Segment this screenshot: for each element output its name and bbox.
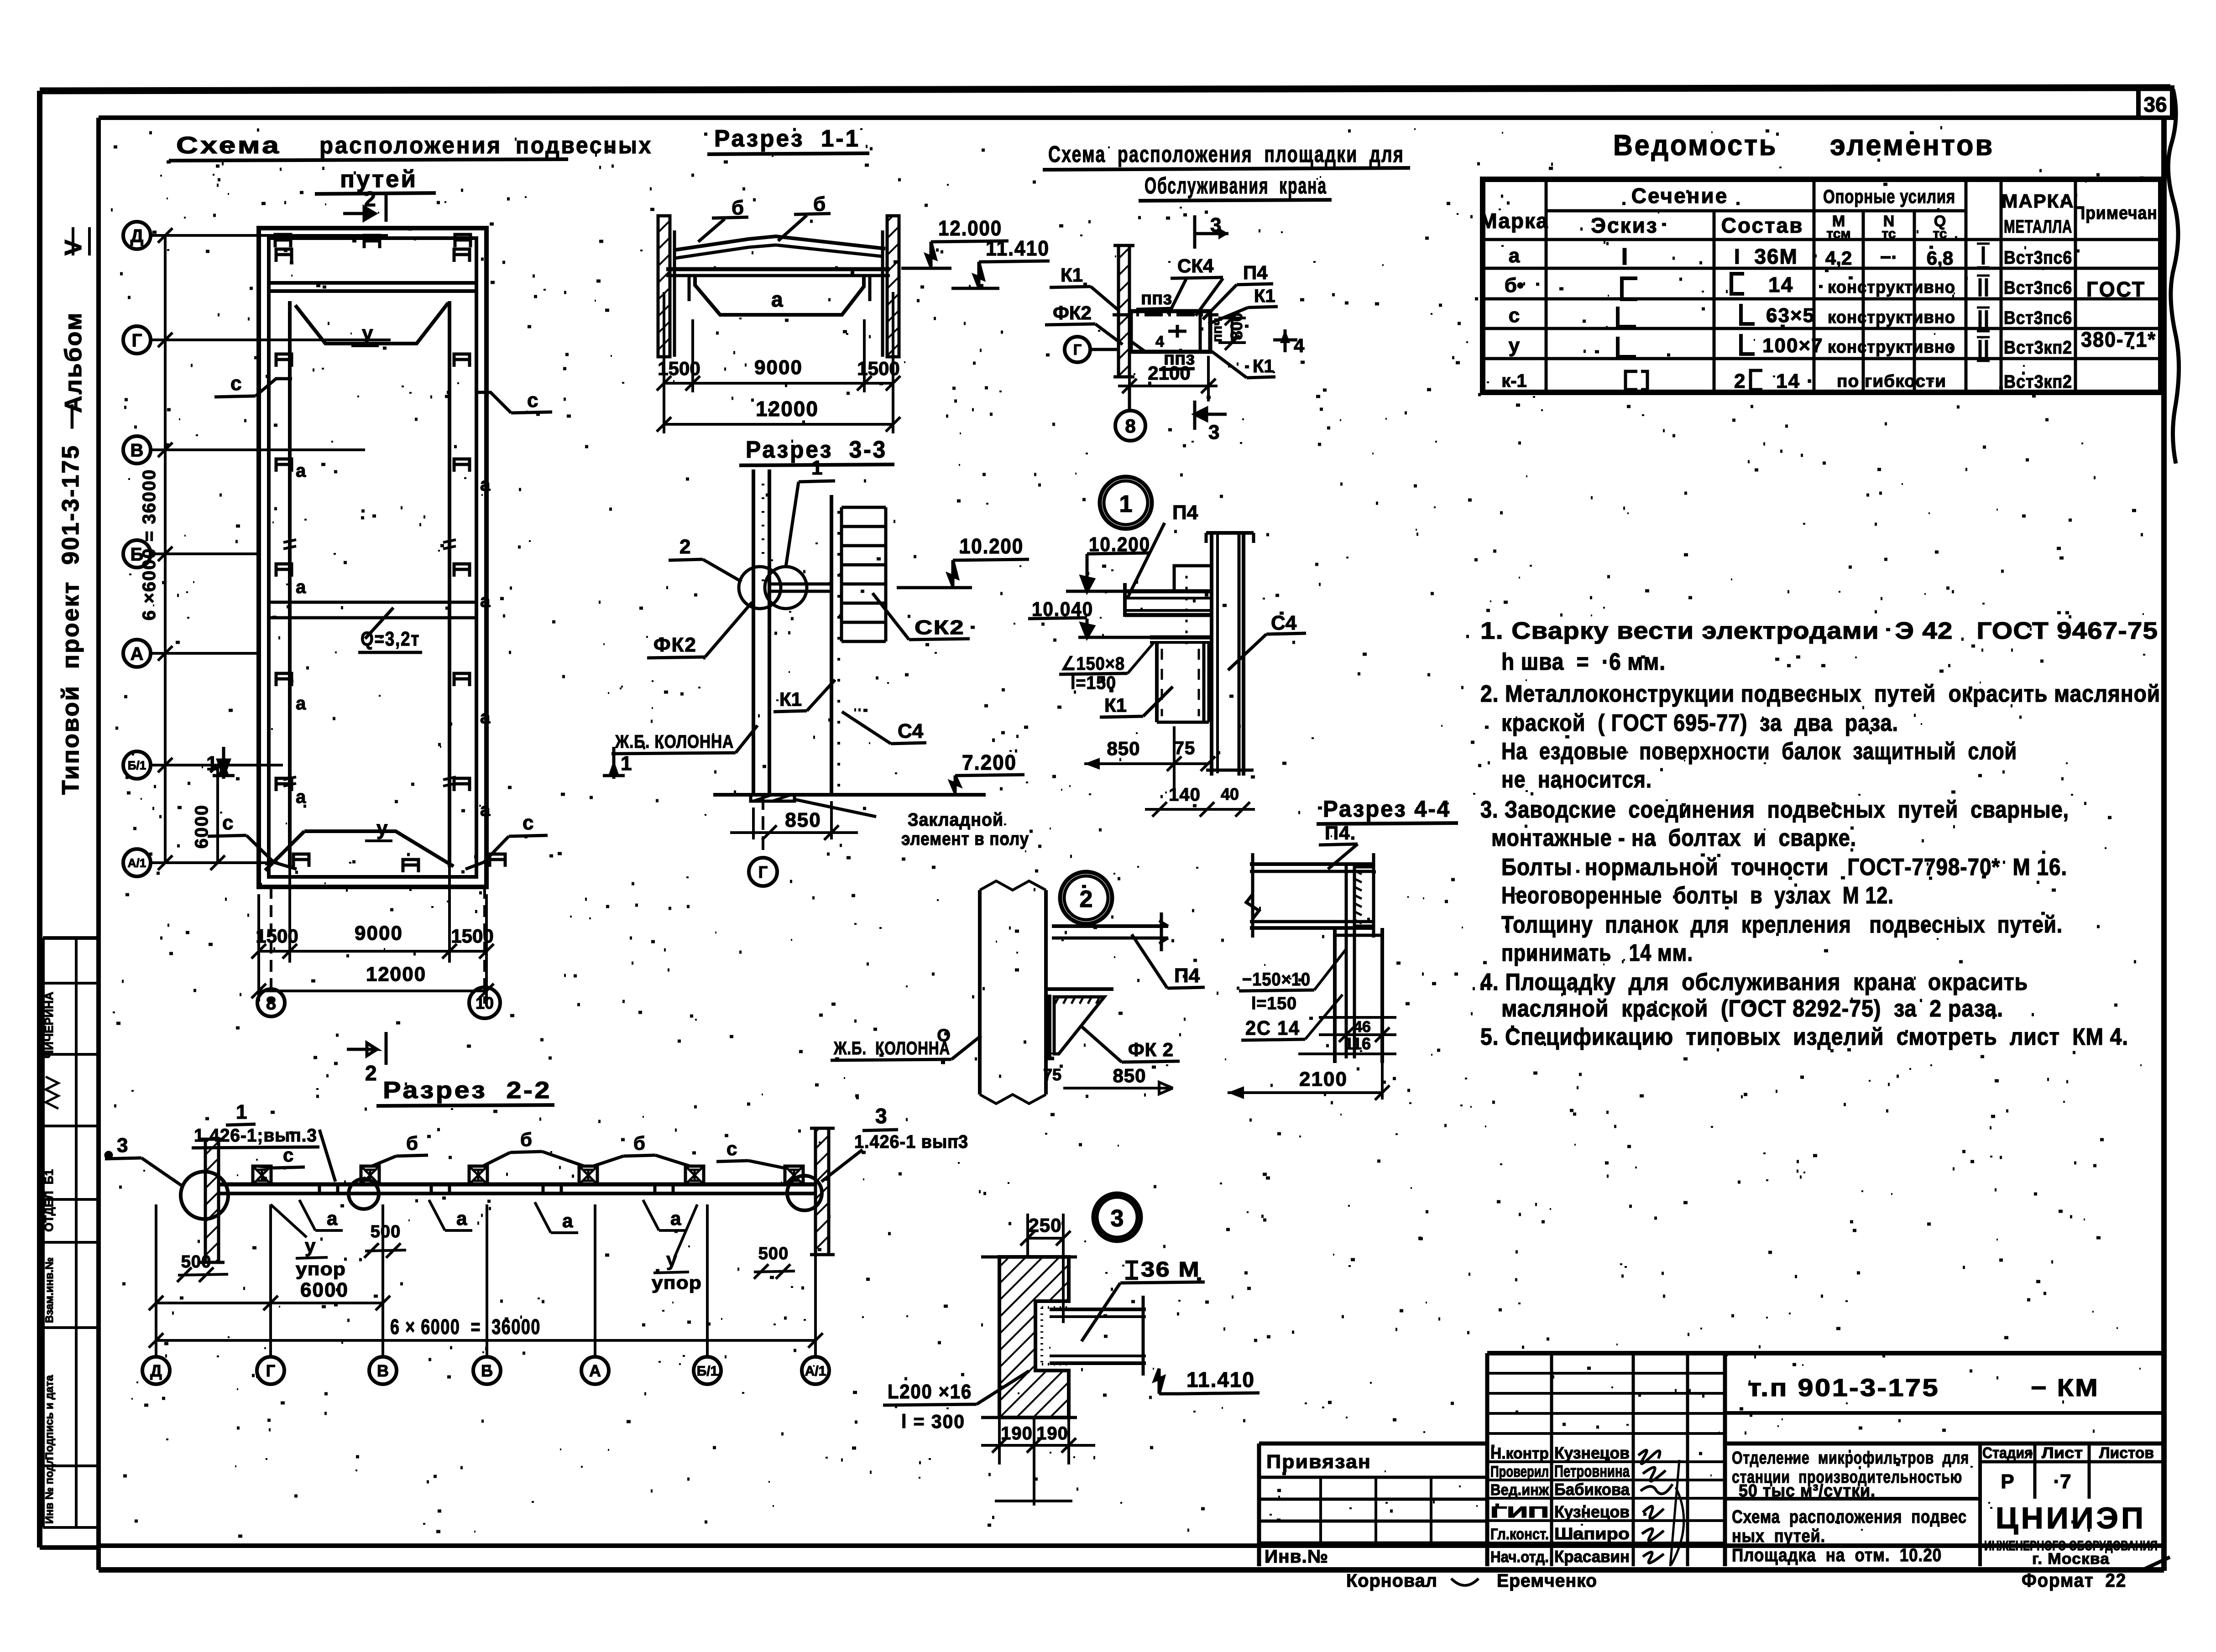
svg-text:I: I xyxy=(1621,244,1628,270)
vertical dimension line 6x6000=36000 xyxy=(164,235,167,863)
svg-text:Обслуживания крана: Обслуживания крана xyxy=(1145,173,1327,198)
svg-text:А: А xyxy=(589,1361,601,1380)
svg-text:К1: К1 xyxy=(1254,286,1275,306)
svg-text:2100: 2100 xyxy=(1148,362,1190,384)
svg-text:а: а xyxy=(296,693,306,714)
svg-text:П4.: П4. xyxy=(1325,822,1356,844)
svg-text:Ведомость: Ведомость xyxy=(1613,129,1777,162)
svg-text:2: 2 xyxy=(679,536,690,558)
svg-text:·7: ·7 xyxy=(2053,1470,2071,1493)
svg-text:500: 500 xyxy=(371,1222,401,1241)
svg-text:а: а xyxy=(480,591,491,611)
svg-text:ГИП: ГИП xyxy=(1490,1504,1549,1521)
svg-text:2. Металлоконструкции подвесны: 2. Металлоконструкции подвесных путей ок… xyxy=(1480,681,2160,707)
svg-text:850: 850 xyxy=(785,809,821,831)
svg-text:а: а xyxy=(296,577,306,597)
svg-text:б: б xyxy=(732,197,744,219)
svg-text:l = 300: l = 300 xyxy=(901,1411,965,1432)
svg-text:не наносится.: не наносится. xyxy=(1501,766,1652,793)
svg-text:С4: С4 xyxy=(898,720,924,742)
svg-text:конструктивно: конструктивно xyxy=(1828,308,1955,327)
detail 3: I-beam 36M xyxy=(1050,1308,1146,1311)
section 2-2: right wall (hatched) xyxy=(815,1128,829,1255)
svg-text:Разрез 2-2: Разрез 2-2 xyxy=(383,1077,552,1104)
svg-text:краской ( ГОСТ 695-77) за д: краской ( ГОСТ 695-77) за два раза. xyxy=(1501,710,1898,736)
svg-text:а: а xyxy=(456,1208,467,1229)
dimension 6000 (Б/1-А/1) xyxy=(216,765,219,863)
svg-text:Площадка на отм. 10.20: Площадка на отм. 10.20 xyxy=(1732,1545,1942,1565)
node 1: П4 beam xyxy=(1125,589,1211,594)
section 2-2: rail clamps on beam xyxy=(253,1166,271,1184)
svg-text:с: с xyxy=(523,812,533,834)
elevation 11.410 near title block left xyxy=(111,128,2143,1536)
svg-text:Типовой проект 901-3-175 —: Типовой проект 901-3-175 — xyxy=(57,403,84,795)
section 1-1: right column (hatched) xyxy=(887,216,899,357)
svg-text:50 тыс м³/сутки.: 50 тыс м³/сутки. xyxy=(1739,1481,1876,1501)
plan: upper trapezoid y xyxy=(295,303,448,344)
svg-text:2: 2 xyxy=(1734,370,1745,392)
svg-text:− КМ: − КМ xyxy=(2031,1374,2099,1402)
svg-text:Опорные усилия: Опорные усилия xyxy=(1823,186,1955,207)
axis circles 8 and 10 (bottom of plan) xyxy=(257,989,285,1016)
title block: object description xyxy=(1725,1497,1980,1501)
svg-text:Инв.№: Инв.№ xyxy=(1265,1547,1328,1567)
svg-text:у: у xyxy=(1509,334,1520,357)
section 4-4: hanger connection xyxy=(1345,864,1348,1058)
svg-text:7.200: 7.200 xyxy=(962,750,1017,774)
section 4-4: dims 46 116 2100 xyxy=(1319,1016,1396,1019)
svg-text:10: 10 xyxy=(476,994,494,1012)
svg-text:Q=3,2т: Q=3,2т xyxy=(361,628,420,650)
section 1-1: runway beam line xyxy=(666,267,890,271)
section 2-2: dim 6000 xyxy=(156,1302,383,1304)
svg-text:3: 3 xyxy=(1208,421,1219,443)
svg-text:ФК2: ФК2 xyxy=(653,634,697,656)
plan: crane line Q=3,2т xyxy=(269,601,476,604)
sidebar bottom stamp table xyxy=(43,936,99,940)
svg-text:2100: 2100 xyxy=(1299,1068,1348,1090)
svg-text:4. Площадку для обслуживания: 4. Площадку для обслуживания крана окрас… xyxy=(1480,969,2028,995)
svg-text:Нач.отд.: Нач.отд. xyxy=(1490,1548,1549,1566)
svg-text:а: а xyxy=(296,461,306,481)
svg-text:с: с xyxy=(726,1138,737,1159)
svg-text:75: 75 xyxy=(1043,1065,1061,1084)
section 3-3: axis Г circle bottom xyxy=(762,796,764,856)
svg-text:800: 800 xyxy=(1227,313,1246,340)
platform scheme: platform plan xyxy=(1131,311,1210,352)
svg-text:10.200: 10.200 xyxy=(960,534,1024,558)
svg-text:б: б xyxy=(633,1132,645,1154)
svg-text:тс: тс xyxy=(1882,226,1896,241)
section 1-1: hanger verticals xyxy=(688,276,691,301)
svg-text:500: 500 xyxy=(758,1244,789,1263)
svg-text:Красавин: Красавин xyxy=(1554,1547,1630,1566)
svg-text:140: 140 xyxy=(1169,785,1201,805)
svg-text:Подпись и дата: Подпись и дата xyxy=(43,1375,56,1460)
svg-text:3: 3 xyxy=(1111,1205,1124,1232)
svg-text:850: 850 xyxy=(1113,1065,1146,1086)
svg-text:б: б xyxy=(520,1129,532,1150)
svg-text:1: 1 xyxy=(811,457,822,479)
title block: left section Привязан xyxy=(1257,1444,1261,1566)
svg-text:П4: П4 xyxy=(1243,262,1268,283)
svg-text:1: 1 xyxy=(1119,491,1133,517)
svg-text:Вст3пс6: Вст3пс6 xyxy=(2004,308,2072,328)
svg-text:190: 190 xyxy=(1036,1423,1068,1444)
right edge wavy overdraw xyxy=(2168,89,2179,464)
svg-text:к-1: к-1 xyxy=(1501,371,1527,391)
plan bottom dimensions xyxy=(270,887,272,1004)
plan: lower trapezoid y xyxy=(304,831,454,866)
svg-text:Бабикова: Бабикова xyxy=(1554,1480,1630,1499)
title block: стадия лист листов xyxy=(2033,1444,2037,1499)
svg-text:40: 40 xyxy=(1221,785,1239,803)
svg-text:а: а xyxy=(480,474,491,495)
svg-text:Состав: Состав xyxy=(1721,214,1804,237)
svg-text:Схема: Схема xyxy=(176,132,281,159)
svg-text:П4: П4 xyxy=(1174,964,1200,987)
svg-text:Корновал: Корновал xyxy=(1346,1571,1437,1591)
node 1: bracket above beam xyxy=(1174,566,1212,591)
svg-text:ппз: ппз xyxy=(1141,288,1172,308)
node 1: bracket at 10.040 xyxy=(1150,636,1211,640)
svg-text:1500: 1500 xyxy=(451,925,493,947)
svg-text:МЕТАЛЛА: МЕТАЛЛА xyxy=(2004,217,2072,237)
svg-text:1500: 1500 xyxy=(256,925,298,947)
svg-text:Г: Г xyxy=(266,1361,275,1380)
plan: beam break marks xyxy=(283,540,296,542)
node 2 detail circle xyxy=(1060,872,1112,924)
section 3-3: закладной элемент label xyxy=(794,799,876,817)
svg-text:В: В xyxy=(131,440,144,460)
svg-text:б: б xyxy=(406,1132,418,1154)
svg-text:расположения: расположения xyxy=(319,132,502,159)
section 3-3: stair СК2 xyxy=(840,507,843,641)
svg-text:46: 46 xyxy=(1354,1018,1371,1036)
section mark 2 (bottom) xyxy=(385,1032,388,1065)
svg-text:Р: Р xyxy=(2001,1470,2014,1493)
svg-text:116: 116 xyxy=(1344,1034,1371,1053)
svg-text:∠150×8: ∠150×8 xyxy=(1061,654,1125,674)
svg-text:4: 4 xyxy=(1294,335,1305,356)
svg-text:11.410: 11.410 xyxy=(986,236,1050,260)
svg-text:К1: К1 xyxy=(1253,356,1274,376)
svg-text:Эскиз: Эскиз xyxy=(1591,214,1658,237)
node 1 detail circle xyxy=(1100,477,1152,529)
svg-text:а: а xyxy=(327,1208,338,1229)
svg-text:14: 14 xyxy=(1768,273,1793,297)
grid lines from axis circles xyxy=(151,234,388,237)
svg-text:с: с xyxy=(1509,304,1520,327)
svg-text:а: а xyxy=(1509,245,1520,267)
svg-text:К1: К1 xyxy=(1061,264,1083,286)
svg-text:Г: Г xyxy=(758,863,768,881)
section 3-3: С4 channel vertical xyxy=(830,495,833,795)
section 4-4: beam xyxy=(1250,862,1374,866)
svg-text:Неоговоренные болты в узлах: Неоговоренные болты в узлах М 12. xyxy=(1501,882,1894,909)
svg-text:конструктивно: конструктивно xyxy=(1828,338,1955,357)
svg-text:А: А xyxy=(131,644,144,664)
svg-text:Н.контр: Н.контр xyxy=(1490,1445,1549,1462)
section 4-4: column below xyxy=(1333,928,1337,1063)
section 2-2: dim 36000 xyxy=(156,1339,815,1342)
svg-text:1.426-1 вып3: 1.426-1 вып3 xyxy=(854,1132,968,1152)
section 2-2: grid verticals xyxy=(155,1204,157,1357)
svg-text:с: с xyxy=(230,372,241,395)
svg-text:конструктивно: конструктивно xyxy=(1828,278,1955,297)
svg-text:Ж.Б. КОЛОННА: Ж.Б. КОЛОННА xyxy=(833,1038,950,1058)
svg-text:А/1: А/1 xyxy=(128,856,146,870)
svg-text:у: у xyxy=(376,817,388,839)
svg-text:а: а xyxy=(562,1210,573,1231)
svg-text:а: а xyxy=(670,1208,681,1229)
platform scheme: axis Г circle xyxy=(1065,337,1090,362)
svg-text:Инв № подл: Инв № подл xyxy=(43,1457,56,1524)
svg-text:14 ·: 14 · xyxy=(1776,370,1814,392)
svg-text:Формат 22: Формат 22 xyxy=(2022,1569,2127,1591)
svg-text:Стадия: Стадия xyxy=(1982,1444,2033,1462)
svg-text:3: 3 xyxy=(875,1104,887,1128)
svg-text:В: В xyxy=(377,1361,389,1380)
svg-text:1: 1 xyxy=(206,752,217,775)
svg-text:−·: −· xyxy=(1880,246,1898,268)
svg-text:элемент в полу: элемент в полу xyxy=(901,829,1029,849)
svg-text:К1: К1 xyxy=(779,688,802,710)
svg-text:Вст3пс6: Вст3пс6 xyxy=(2004,248,2072,268)
svg-text:Вст3кп2: Вст3кп2 xyxy=(2004,338,2072,358)
svg-text:Разрез 1-1: Разрез 1-1 xyxy=(714,125,860,152)
svg-text:1: 1 xyxy=(621,752,632,775)
svg-text:Кузнецов: Кузнецов xyxy=(1554,1444,1630,1462)
section 3-3: column verticals xyxy=(752,469,755,796)
platform scheme: wall (hatched) xyxy=(1118,245,1129,377)
svg-text:1.426-1;вып.3: 1.426-1;вып.3 xyxy=(194,1126,317,1146)
svg-text:Еремченко: Еремченко xyxy=(1497,1571,1597,1591)
svg-text:36 М: 36 М xyxy=(1141,1257,1200,1281)
section 3-3: connection beam + detail circles xyxy=(769,583,831,586)
svg-text:а: а xyxy=(480,707,491,727)
svg-text:у: у xyxy=(305,1235,316,1256)
svg-text:Взам.инв.№: Взам.инв.№ xyxy=(43,1257,56,1323)
node 2: ФК2 bracket xyxy=(1046,987,1113,991)
platform scheme: axis 8 circle xyxy=(1115,411,1145,441)
plan view: suspended tracks layout xyxy=(259,228,486,887)
title block: document number box xyxy=(1725,1411,2164,1415)
svg-text:Разрез 4-4: Разрез 4-4 xyxy=(1323,796,1451,822)
svg-text:12000: 12000 xyxy=(366,963,426,985)
svg-text:монтажные - на болтах и сва: монтажные - на болтах и сварке. xyxy=(1491,825,1856,851)
svg-text:масляной краской (ГОСТ 8292-: масляной краской (ГОСТ 8292-75) за 2 раз… xyxy=(1501,995,2003,1022)
svg-text:Листов: Листов xyxy=(2099,1444,2154,1462)
svg-text:ОТДЕЛ Б1: ОТДЕЛ Б1 xyxy=(42,1169,56,1232)
svg-text:5. Спецификацию типовых изде: 5. Спецификацию типовых изделий смотреть… xyxy=(1480,1024,2128,1050)
svg-text:8: 8 xyxy=(266,993,276,1013)
svg-text:с: с xyxy=(283,1144,293,1166)
svg-text:Ж.Б. КОЛОННА: Ж.Б. КОЛОННА xyxy=(615,732,734,752)
svg-text:а: а xyxy=(771,287,783,311)
section 2-2: axis circles bottom xyxy=(142,1357,170,1384)
svg-text:Схема расположения площадки: Схема расположения площадки для xyxy=(1048,141,1404,167)
platform scheme: dim 800 xyxy=(1231,318,1233,343)
svg-text:ных путей.: ных путей. xyxy=(1732,1526,1825,1546)
svg-text:Г: Г xyxy=(132,330,142,350)
platform scheme: section mark 4 xyxy=(1273,339,1297,342)
svg-text:Г: Г xyxy=(1073,342,1082,358)
svg-text:Проверил: Проверил xyxy=(1490,1463,1549,1480)
svg-text:6,8: 6,8 xyxy=(1927,247,1953,269)
svg-text:4: 4 xyxy=(1155,333,1164,350)
svg-text:Б/1: Б/1 xyxy=(697,1364,718,1379)
section mark 1 (left) xyxy=(222,747,225,779)
svg-text:Д: Д xyxy=(150,1361,162,1380)
svg-text:6000: 6000 xyxy=(300,1279,349,1301)
svg-text:1. Сварку вести электродами Э: 1. Сварку вести электродами Э 42 ГОСТ 94… xyxy=(1480,618,2158,644)
svg-text:3: 3 xyxy=(117,1134,128,1157)
svg-text:ФК2: ФК2 xyxy=(1053,302,1092,323)
node 2: column xyxy=(978,890,982,1094)
svg-text:500: 500 xyxy=(181,1252,211,1272)
svg-text:I 36М: I 36М xyxy=(1734,245,1798,268)
svg-text:А/1: А/1 xyxy=(805,1364,826,1379)
svg-text:3. Заводские соединения подв: 3. Заводские соединения подвесных путей … xyxy=(1480,797,2069,823)
svg-text:тс: тс xyxy=(1933,226,1947,241)
section mark 1 (right) xyxy=(612,747,616,779)
title block: name rows xyxy=(1487,1460,1725,1463)
svg-text:9000: 9000 xyxy=(754,356,803,379)
section 3-3: floor line xyxy=(713,793,986,797)
svg-text:упор: упор xyxy=(652,1273,702,1293)
node 2: П4 beam xyxy=(1052,924,1168,928)
svg-text:принимать 14 мм.: принимать 14 мм. xyxy=(1501,940,1693,966)
svg-text:С4: С4 xyxy=(1271,612,1297,634)
section 2-2: left wall (hatched) xyxy=(205,1139,219,1262)
svg-text:путей: путей xyxy=(340,166,418,193)
svg-text:Лист: Лист xyxy=(2042,1444,2083,1462)
svg-text:4,2: 4,2 xyxy=(1825,247,1852,269)
sheet number box 36 xyxy=(2138,88,2172,118)
svg-text:тсм: тсм xyxy=(1826,226,1850,241)
svg-text:Альбом: Альбом xyxy=(60,312,87,413)
svg-text:Д: Д xyxy=(131,226,144,246)
page frame xyxy=(40,88,2170,91)
svg-text:б: б xyxy=(813,193,826,215)
svg-text:100×7: 100×7 xyxy=(1762,334,1824,357)
svg-text:ЧИЧЕРИНА: ЧИЧЕРИНА xyxy=(42,992,56,1058)
svg-text:2: 2 xyxy=(365,1061,377,1085)
svg-text:подвесных: подвесных xyxy=(516,132,653,159)
svg-text:2С 14: 2С 14 xyxy=(1245,1017,1300,1039)
svg-text:1500: 1500 xyxy=(857,358,899,379)
svg-text:ФК 2: ФК 2 xyxy=(1128,1039,1174,1060)
plan: rail clamp symbols on walls xyxy=(276,249,292,262)
svg-text:1500: 1500 xyxy=(658,358,700,379)
detail 3 circle xyxy=(1093,1193,1141,1241)
svg-text:6 × 6000 = 36000: 6 × 6000 = 36000 xyxy=(390,1315,541,1339)
plan: upper interior beam (double line) xyxy=(269,281,476,285)
svg-text:36: 36 xyxy=(2143,93,2167,116)
section 1-1: left column (hatched) xyxy=(658,216,670,357)
svg-text:г. Москва: г. Москва xyxy=(2032,1550,2110,1568)
svg-text:упор: упор xyxy=(296,1259,346,1279)
svg-text:по гибкости: по гибкости xyxy=(1837,372,1946,391)
svg-text:Толщину планок для креплени: Толщину планок для крепления подвесных п… xyxy=(1501,912,2063,938)
svg-text:а: а xyxy=(480,800,491,820)
svg-text:1: 1 xyxy=(236,1101,247,1123)
svg-text:с: с xyxy=(222,812,233,834)
svg-text:б•: б• xyxy=(1505,274,1524,297)
svg-text:О: О xyxy=(937,1026,951,1045)
svg-text:Б/1: Б/1 xyxy=(128,758,146,772)
svg-text:Б: Б xyxy=(481,1361,493,1380)
svg-text:6 ×6000 = 36000: 6 ×6000 = 36000 xyxy=(139,469,159,620)
title block: upper small grid xyxy=(1485,1353,1490,1566)
svg-text:Привязан: Привязан xyxy=(1266,1451,1371,1472)
plan: crane beams (vertical) xyxy=(288,301,292,867)
svg-text:Закладной: Закладной xyxy=(908,810,1003,830)
platform scheme: section mark 3 bottom xyxy=(1193,401,1197,430)
svg-text:8: 8 xyxy=(1125,415,1135,437)
section 1-1: roof slab xyxy=(674,236,885,250)
svg-text:Схема расположения подвес: Схема расположения подвес xyxy=(1732,1507,1967,1527)
svg-text:а: а xyxy=(296,787,306,807)
svg-text:Петровнина: Петровнина xyxy=(1554,1462,1630,1480)
section 1-1: beam a trapezoid xyxy=(695,276,864,315)
svg-text:Марка: Марка xyxy=(1479,209,1548,233)
svg-text:Вст3пс6: Вст3пс6 xyxy=(2004,278,2072,298)
section 2-2: support circles xyxy=(181,1172,228,1219)
node 1: К1 channel xyxy=(1155,643,1159,722)
svg-text:ЦНИИЭП: ЦНИИЭП xyxy=(1996,1501,2146,1535)
svg-text:75: 75 xyxy=(1174,738,1196,758)
svg-text:т.п 901-3-175: т.п 901-3-175 xyxy=(1748,1374,1939,1402)
svg-text:с: с xyxy=(527,389,538,412)
svg-text:L200 ×16: L200 ×16 xyxy=(888,1381,972,1403)
platform scheme: dim 2100 xyxy=(1118,385,1218,387)
svg-text:ГОСТ: ГОСТ xyxy=(2086,277,2146,301)
svg-text:6000: 6000 xyxy=(192,804,212,849)
svg-text:К1: К1 xyxy=(1104,694,1127,716)
left sidebar strip xyxy=(68,118,69,938)
svg-text:ппч: ппч xyxy=(1210,318,1225,342)
title block: signatures scribbles xyxy=(1638,1450,1672,1563)
svg-text:l=150: l=150 xyxy=(1251,994,1297,1013)
svg-text:Шапиро: Шапиро xyxy=(1554,1524,1630,1543)
svg-text:11.410: 11.410 xyxy=(1186,1368,1255,1391)
detail 3: embedded angle (dotted concrete) xyxy=(1035,1301,1069,1371)
section 3-3: dim 850 xyxy=(752,808,755,839)
section 2-2: runway beam xyxy=(219,1183,815,1187)
section 1-1 dimensions xyxy=(663,292,665,433)
svg-text:На ездовые поверхности бало: На ездовые поверхности балок защитный сл… xyxy=(1501,738,2017,765)
svg-text:Гл.конст.: Гл.конст. xyxy=(1490,1526,1549,1543)
table: Ведомость элементов grid xyxy=(1483,179,2161,392)
svg-text:9000: 9000 xyxy=(355,922,403,944)
svg-text:Сечение: Сечение xyxy=(1631,184,1729,208)
svg-text:СК4: СК4 xyxy=(1177,255,1214,276)
svg-text:2: 2 xyxy=(1080,886,1093,912)
node 1 dims 850 / 75 xyxy=(1084,762,1209,765)
svg-text:П4: П4 xyxy=(1172,501,1198,524)
svg-text:850: 850 xyxy=(1107,738,1140,759)
svg-text:h шва = ·6 мм.: h шва = ·6 мм. xyxy=(1501,649,1666,675)
svg-text:Примечан.: Примечан. xyxy=(2074,203,2163,223)
svg-text:63×5: 63×5 xyxy=(1766,304,1815,327)
svg-text:Вст3кп2: Вст3кп2 xyxy=(2004,372,2072,392)
node 1 dims 140 / 40 xyxy=(1145,808,1255,811)
svg-text:Вед.инж: Вед.инж xyxy=(1490,1481,1549,1499)
detail 3: wall with hatch xyxy=(999,1257,1069,1417)
grid axis circles (left column) xyxy=(123,222,151,249)
